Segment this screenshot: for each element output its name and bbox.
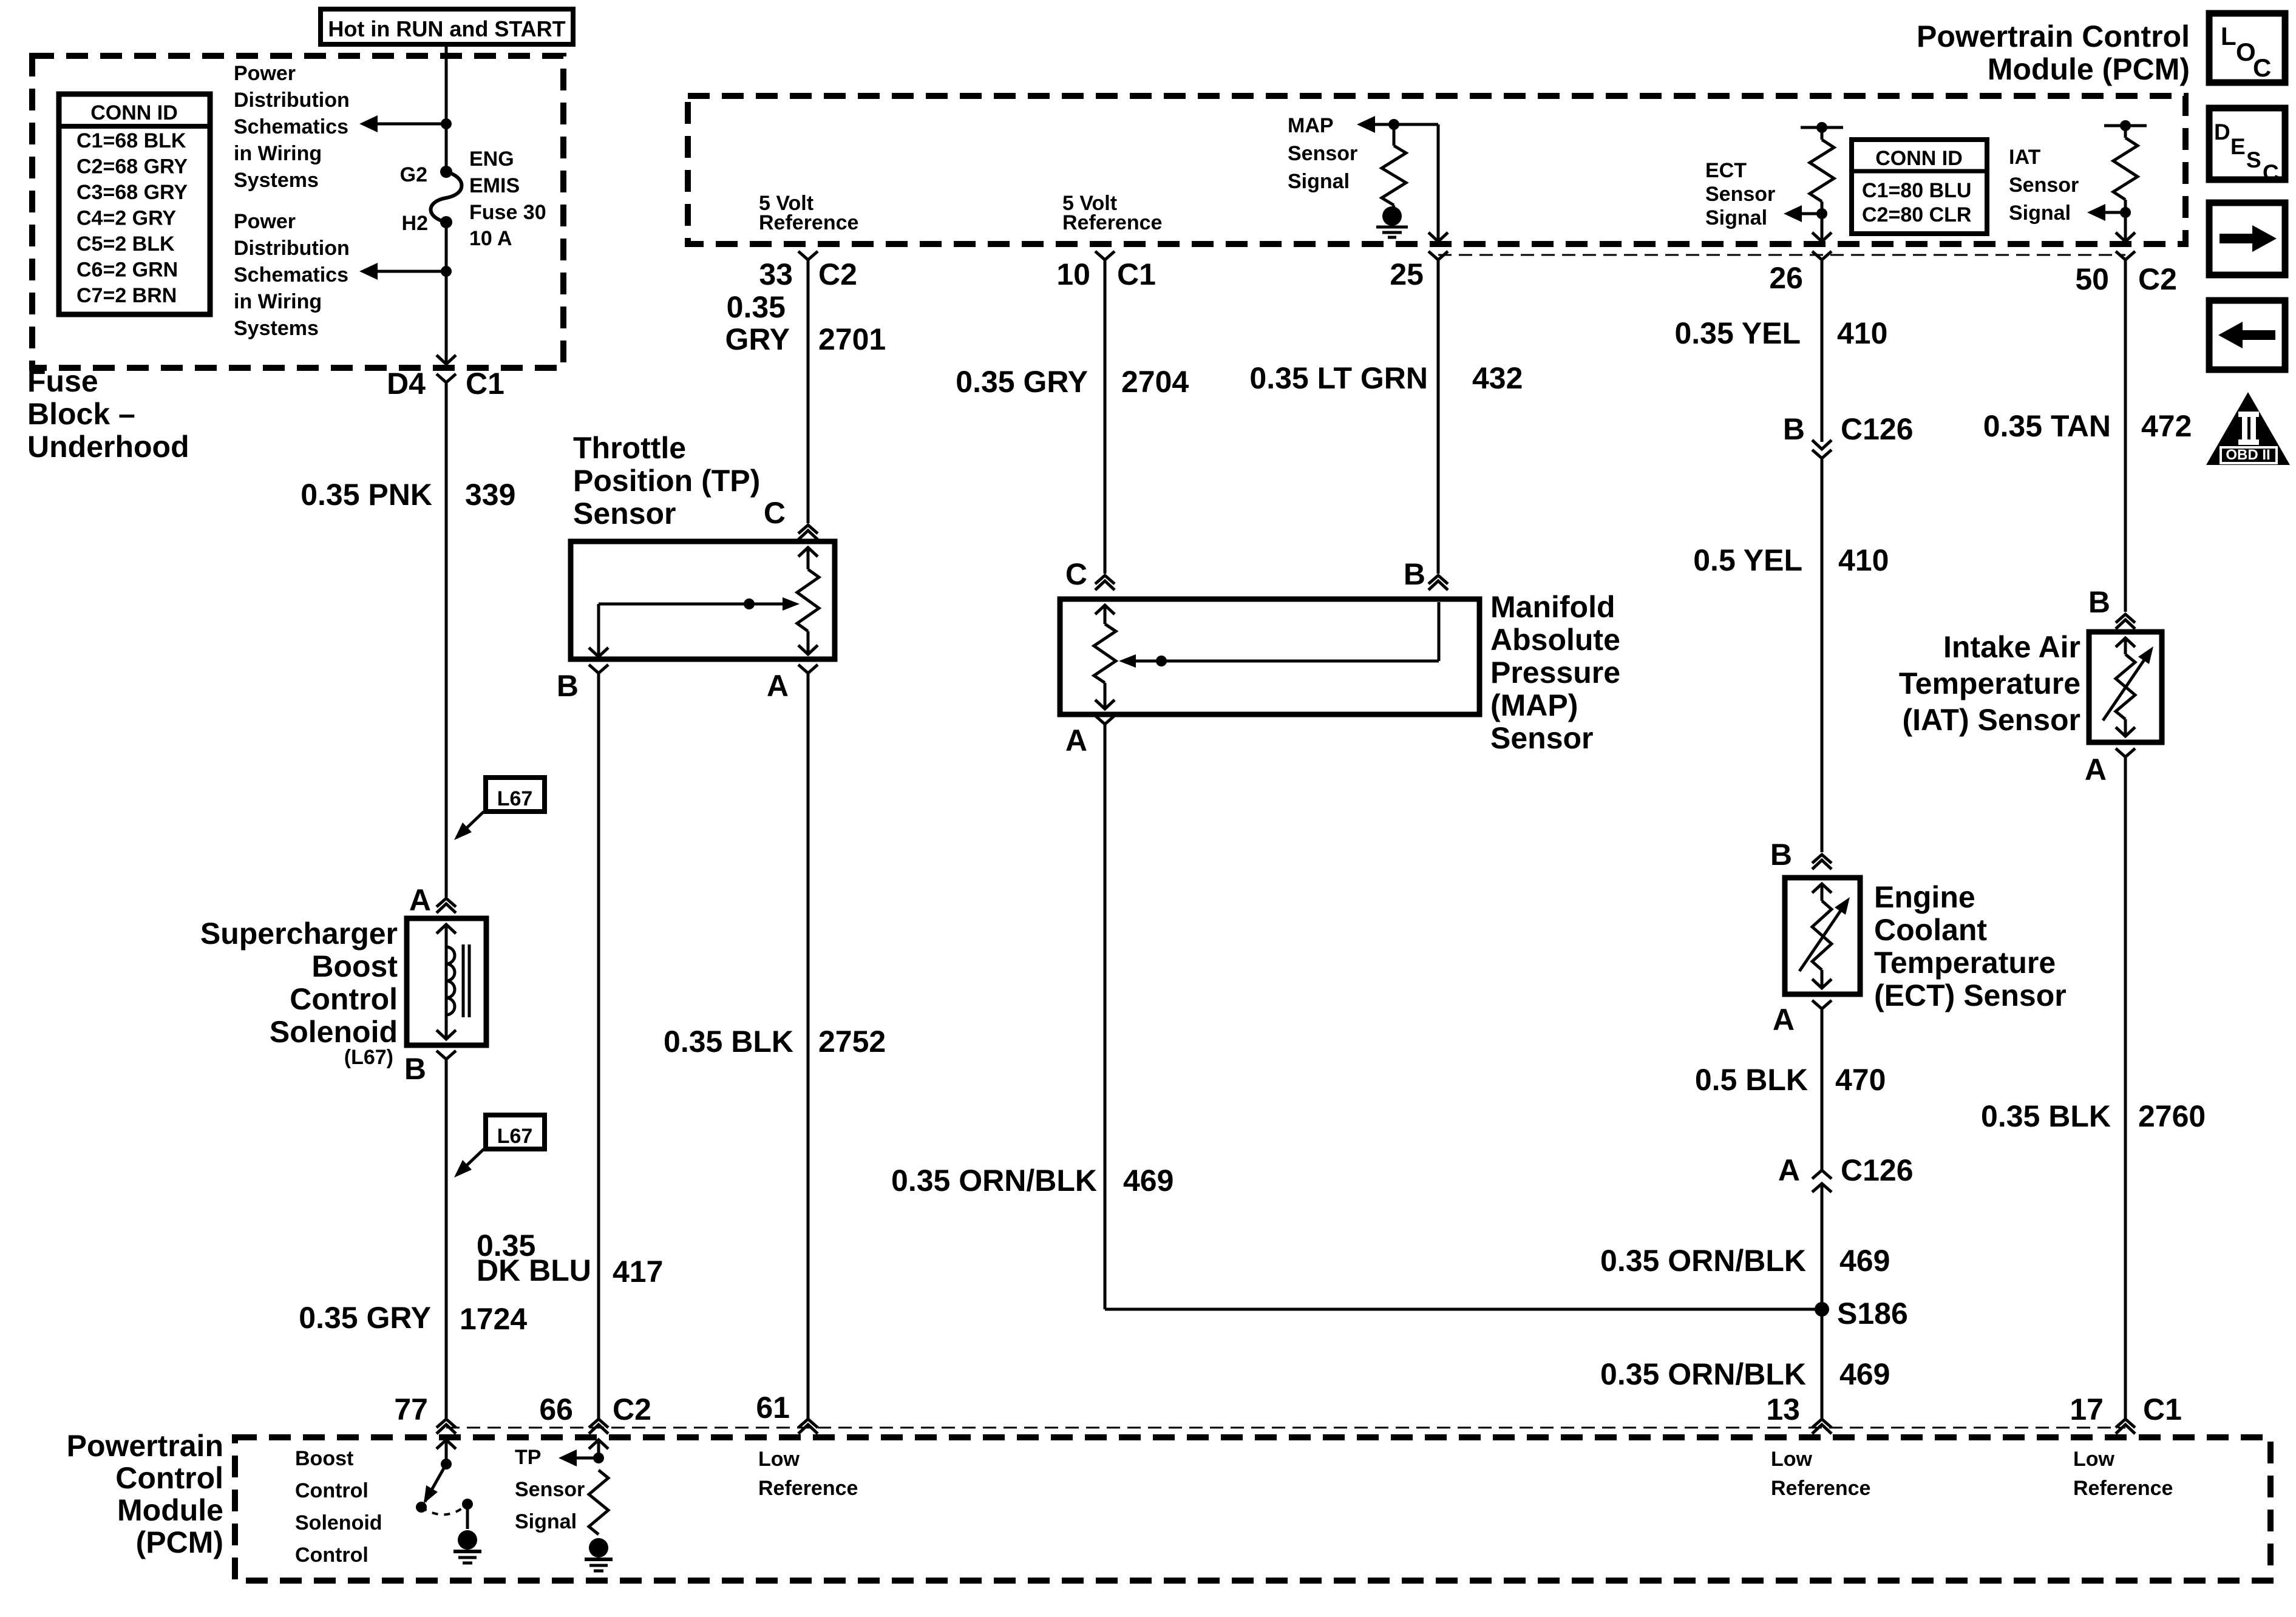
svg-text:Module: Module xyxy=(117,1493,223,1527)
svg-text:ENG: ENG xyxy=(469,147,514,171)
svg-text:1724: 1724 xyxy=(460,1302,527,1336)
svg-text:0.35 PNK: 0.35 PNK xyxy=(301,478,432,512)
svg-text:0.35 GRY: 0.35 GRY xyxy=(299,1301,431,1335)
svg-text:A: A xyxy=(1778,1153,1800,1187)
svg-text:C1=68 BLK: C1=68 BLK xyxy=(76,129,186,152)
svg-text:Control: Control xyxy=(295,1479,369,1502)
svg-text:Schematics: Schematics xyxy=(234,115,348,138)
svg-text:CONN ID: CONN ID xyxy=(90,101,178,124)
svg-text:S: S xyxy=(2246,147,2261,172)
svg-text:C1: C1 xyxy=(466,367,504,401)
svg-text:C: C xyxy=(2253,53,2271,82)
svg-text:Fuse 30: Fuse 30 xyxy=(469,201,546,224)
svg-text:Schematics: Schematics xyxy=(234,263,348,286)
svg-text:A: A xyxy=(2085,753,2107,787)
svg-text:EMIS: EMIS xyxy=(469,174,520,197)
svg-text:Power: Power xyxy=(234,62,296,85)
svg-text:A: A xyxy=(1773,1003,1795,1037)
svg-text:0.35: 0.35 xyxy=(727,290,786,324)
svg-text:L67: L67 xyxy=(497,787,533,810)
svg-text:B: B xyxy=(2088,585,2110,619)
svg-text:Control: Control xyxy=(295,1544,369,1567)
svg-text:C2: C2 xyxy=(613,1392,651,1426)
svg-text:C126: C126 xyxy=(1841,1153,1914,1187)
svg-text:Sensor: Sensor xyxy=(573,497,676,531)
svg-text:26: 26 xyxy=(1769,261,1803,295)
svg-text:Reference: Reference xyxy=(1771,1477,1870,1500)
svg-text:C1: C1 xyxy=(1117,257,1156,291)
svg-text:0.35 YEL: 0.35 YEL xyxy=(1674,316,1801,350)
svg-text:C6=2 GRN: C6=2 GRN xyxy=(76,259,178,282)
svg-text:TP: TP xyxy=(515,1446,541,1469)
svg-text:0.35 BLK: 0.35 BLK xyxy=(664,1025,793,1059)
svg-text:432: 432 xyxy=(1472,361,1523,395)
svg-text:417: 417 xyxy=(613,1255,663,1289)
svg-text:CONN ID: CONN ID xyxy=(1875,147,1963,170)
svg-text:Fuse: Fuse xyxy=(27,364,98,398)
svg-text:B: B xyxy=(1770,838,1792,872)
svg-text:(IAT) Sensor: (IAT) Sensor xyxy=(1902,703,2080,737)
svg-text:Power: Power xyxy=(234,210,296,233)
svg-text:410: 410 xyxy=(1837,316,1887,350)
svg-text:Powertrain Control: Powertrain Control xyxy=(1917,19,2190,53)
svg-text:17: 17 xyxy=(2070,1392,2104,1426)
svg-text:472: 472 xyxy=(2141,409,2192,443)
svg-text:Signal: Signal xyxy=(1705,206,1767,229)
svg-text:Engine: Engine xyxy=(1874,880,1975,914)
svg-text:469: 469 xyxy=(1123,1164,1173,1198)
svg-text:D4: D4 xyxy=(387,367,426,401)
svg-text:A: A xyxy=(409,883,431,917)
svg-text:B: B xyxy=(557,669,579,703)
svg-text:in Wiring: in Wiring xyxy=(234,290,322,313)
svg-text:Solenoid: Solenoid xyxy=(295,1511,382,1534)
svg-text:2701: 2701 xyxy=(818,322,886,356)
svg-text:(L67): (L67) xyxy=(344,1046,393,1069)
svg-text:D: D xyxy=(2214,120,2230,144)
svg-text:77: 77 xyxy=(394,1392,428,1426)
svg-text:Distribution: Distribution xyxy=(234,89,350,112)
svg-text:OBD II: OBD II xyxy=(2226,447,2270,463)
svg-text:A: A xyxy=(1065,724,1087,758)
svg-text:C3=68 GRY: C3=68 GRY xyxy=(76,181,188,204)
svg-text:Low: Low xyxy=(1771,1448,1813,1471)
svg-text:Control: Control xyxy=(115,1461,223,1495)
svg-text:S186: S186 xyxy=(1837,1297,1908,1331)
svg-text:in Wiring: in Wiring xyxy=(234,142,322,165)
svg-text:Boost: Boost xyxy=(311,949,398,983)
svg-text:Underhood: Underhood xyxy=(27,430,189,464)
svg-text:Distribution: Distribution xyxy=(234,237,350,260)
svg-text:C2: C2 xyxy=(818,257,857,291)
svg-text:2752: 2752 xyxy=(818,1025,886,1059)
svg-text:Systems: Systems xyxy=(234,169,319,192)
svg-text:410: 410 xyxy=(1838,543,1889,577)
svg-text:(MAP): (MAP) xyxy=(1490,688,1578,722)
svg-text:Reference: Reference xyxy=(758,1477,858,1500)
svg-text:33: 33 xyxy=(759,257,793,291)
svg-text:C2=68 GRY: C2=68 GRY xyxy=(76,155,188,178)
svg-text:Sensor: Sensor xyxy=(1288,142,1357,165)
svg-text:0.35 BLK: 0.35 BLK xyxy=(1981,1099,2111,1133)
svg-text:C1=80 BLU: C1=80 BLU xyxy=(1862,179,1971,202)
svg-text:E: E xyxy=(2230,134,2246,159)
svg-text:Sensor: Sensor xyxy=(2009,174,2079,197)
svg-text:469: 469 xyxy=(1839,1357,1890,1391)
svg-text:0.35 ORN/BLK: 0.35 ORN/BLK xyxy=(891,1164,1097,1198)
svg-text:0.35 LT GRN: 0.35 LT GRN xyxy=(1249,361,1428,395)
svg-text:10: 10 xyxy=(1056,257,1090,291)
svg-text:Boost: Boost xyxy=(295,1447,353,1470)
svg-text:Reference: Reference xyxy=(759,211,858,234)
svg-text:C2=80 CLR: C2=80 CLR xyxy=(1862,203,1971,226)
svg-text:ECT: ECT xyxy=(1705,159,1747,182)
svg-text:0.5 YEL: 0.5 YEL xyxy=(1693,543,1802,577)
svg-text:Position (TP): Position (TP) xyxy=(573,464,760,498)
svg-text:0.35 ORN/BLK: 0.35 ORN/BLK xyxy=(1600,1357,1806,1391)
svg-text:(PCM): (PCM) xyxy=(136,1525,223,1559)
svg-text:Throttle: Throttle xyxy=(573,431,686,465)
svg-text:Sensor: Sensor xyxy=(515,1478,585,1501)
svg-text:0.35 GRY: 0.35 GRY xyxy=(956,365,1088,399)
svg-text:2704: 2704 xyxy=(1121,365,1189,399)
svg-text:0.35 ORN/BLK: 0.35 ORN/BLK xyxy=(1600,1244,1806,1278)
svg-text:C: C xyxy=(2263,160,2279,185)
svg-text:Intake Air: Intake Air xyxy=(1943,630,2080,664)
svg-text:Powertrain: Powertrain xyxy=(67,1429,223,1463)
svg-text:Module (PCM): Module (PCM) xyxy=(1988,52,2190,86)
svg-text:A: A xyxy=(767,669,789,703)
svg-text:13: 13 xyxy=(1766,1392,1800,1426)
svg-text:0.5 BLK: 0.5 BLK xyxy=(1695,1063,1808,1097)
svg-text:IAT: IAT xyxy=(2009,146,2040,169)
svg-text:Signal: Signal xyxy=(1288,170,1350,193)
svg-text:Pressure: Pressure xyxy=(1490,656,1620,690)
svg-text:Hot in RUN and START: Hot in RUN and START xyxy=(328,16,565,41)
svg-text:B: B xyxy=(1783,412,1805,446)
svg-text:339: 339 xyxy=(465,478,515,512)
svg-text:Supercharger: Supercharger xyxy=(200,917,398,951)
svg-text:Control: Control xyxy=(290,982,398,1016)
svg-text:Signal: Signal xyxy=(515,1510,577,1533)
svg-text:Solenoid: Solenoid xyxy=(270,1015,398,1049)
svg-text:469: 469 xyxy=(1839,1244,1890,1278)
svg-text:C: C xyxy=(764,496,786,530)
svg-text:Low: Low xyxy=(758,1448,800,1471)
svg-text:DK BLU: DK BLU xyxy=(477,1253,591,1287)
svg-text:C1: C1 xyxy=(2143,1392,2182,1426)
svg-text:2760: 2760 xyxy=(2138,1099,2206,1133)
svg-text:Reference: Reference xyxy=(2073,1477,2173,1500)
svg-text:61: 61 xyxy=(756,1391,790,1425)
svg-text:Absolute: Absolute xyxy=(1490,623,1620,657)
svg-text:MAP: MAP xyxy=(1288,114,1334,137)
svg-text:Low: Low xyxy=(2073,1448,2115,1471)
svg-text:L: L xyxy=(2221,22,2237,50)
svg-text:C5=2 BLK: C5=2 BLK xyxy=(76,232,175,256)
svg-text:Sensor: Sensor xyxy=(1490,721,1594,755)
svg-text:H2: H2 xyxy=(402,212,428,235)
svg-text:50: 50 xyxy=(2075,262,2109,296)
svg-text:Sensor: Sensor xyxy=(1705,183,1775,206)
svg-text:66: 66 xyxy=(539,1392,573,1426)
svg-text:Temperature: Temperature xyxy=(1899,666,2080,700)
svg-text:Systems: Systems xyxy=(234,317,319,340)
svg-text:Manifold: Manifold xyxy=(1490,590,1615,624)
svg-text:0.35 TAN: 0.35 TAN xyxy=(1983,409,2111,443)
svg-text:10 A: 10 A xyxy=(469,227,512,250)
svg-text:Reference: Reference xyxy=(1062,211,1162,234)
svg-text:B: B xyxy=(404,1052,426,1086)
svg-text:G2: G2 xyxy=(400,163,427,186)
svg-text:Signal: Signal xyxy=(2009,202,2071,225)
svg-text:Block –: Block – xyxy=(27,397,135,431)
svg-text:L67: L67 xyxy=(497,1125,533,1148)
svg-text:C126: C126 xyxy=(1841,412,1914,446)
svg-text:Temperature: Temperature xyxy=(1874,946,2056,980)
svg-text:C4=2 GRY: C4=2 GRY xyxy=(76,207,176,230)
svg-text:Coolant: Coolant xyxy=(1874,913,1987,947)
svg-text:25: 25 xyxy=(1390,257,1424,291)
svg-text:470: 470 xyxy=(1835,1063,1886,1097)
svg-text:(ECT) Sensor: (ECT) Sensor xyxy=(1874,978,2067,1012)
svg-text:C2: C2 xyxy=(2138,262,2177,296)
svg-text:C: C xyxy=(1065,557,1087,591)
svg-text:B: B xyxy=(1404,557,1425,591)
svg-text:GRY: GRY xyxy=(725,322,790,356)
svg-text:C7=2 BRN: C7=2 BRN xyxy=(76,284,177,307)
